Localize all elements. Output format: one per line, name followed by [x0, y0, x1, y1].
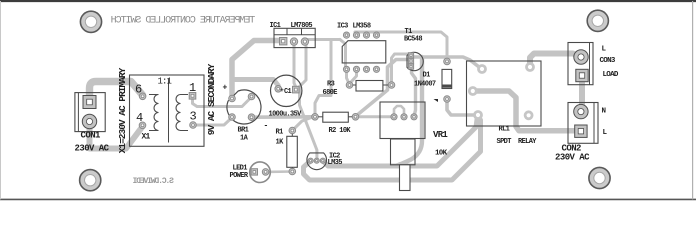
svg-text:230V AC: 230V AC	[75, 143, 110, 153]
svg-text:X1=230V AC PRIMARY: X1=230V AC PRIMARY	[117, 67, 128, 153]
svg-text:N: N	[602, 108, 606, 116]
svg-text:X1: X1	[142, 132, 151, 141]
svg-text:CON1: CON1	[81, 131, 102, 141]
svg-text:CON3: CON3	[600, 57, 616, 65]
svg-text:3: 3	[190, 109, 197, 123]
svg-text:S.C.DWIVEDI: S.C.DWIVEDI	[132, 177, 174, 186]
svg-text:BC548: BC548	[404, 36, 422, 44]
svg-text:IC1: IC1	[270, 22, 281, 30]
svg-text:VR1: VR1	[433, 130, 448, 140]
svg-text:BR1: BR1	[238, 126, 249, 134]
svg-text:-: -	[264, 121, 269, 130]
svg-text:D1: D1	[423, 72, 431, 80]
svg-text:RL1: RL1	[499, 125, 510, 133]
svg-text:230V AC: 230V AC	[555, 152, 590, 162]
svg-text:6: 6	[135, 83, 142, 97]
svg-text:1:1: 1:1	[158, 77, 172, 87]
svg-text:LM35: LM35	[328, 159, 343, 167]
svg-text:R3: R3	[327, 80, 335, 88]
svg-text:POWER: POWER	[230, 172, 249, 180]
svg-text:R2 10K: R2 10K	[329, 127, 352, 135]
svg-text:1: 1	[189, 81, 196, 95]
svg-text:IC3: IC3	[337, 23, 348, 31]
svg-text:9V AC SECONDARY: 9V AC SECONDARY	[206, 63, 217, 135]
svg-text:SPDT RELAY: SPDT RELAY	[497, 138, 538, 146]
svg-text:4: 4	[136, 111, 143, 125]
svg-text:R1: R1	[276, 129, 284, 137]
svg-text:C1: C1	[284, 88, 291, 96]
svg-text:10K: 10K	[435, 149, 448, 157]
svg-text:LOAD: LOAD	[603, 71, 619, 79]
svg-text:680E: 680E	[323, 89, 338, 97]
svg-text:LM7805: LM7805	[291, 22, 313, 30]
svg-text:TEMPERATURE CONTROLLED SWITCH: TEMPERATURE CONTROLLED SWITCH	[111, 15, 256, 26]
svg-text:+: +	[223, 84, 228, 93]
svg-text:1N4007: 1N4007	[414, 81, 436, 89]
svg-text:LM358: LM358	[353, 23, 371, 31]
svg-text:1000u.35V: 1000u.35V	[269, 110, 303, 118]
